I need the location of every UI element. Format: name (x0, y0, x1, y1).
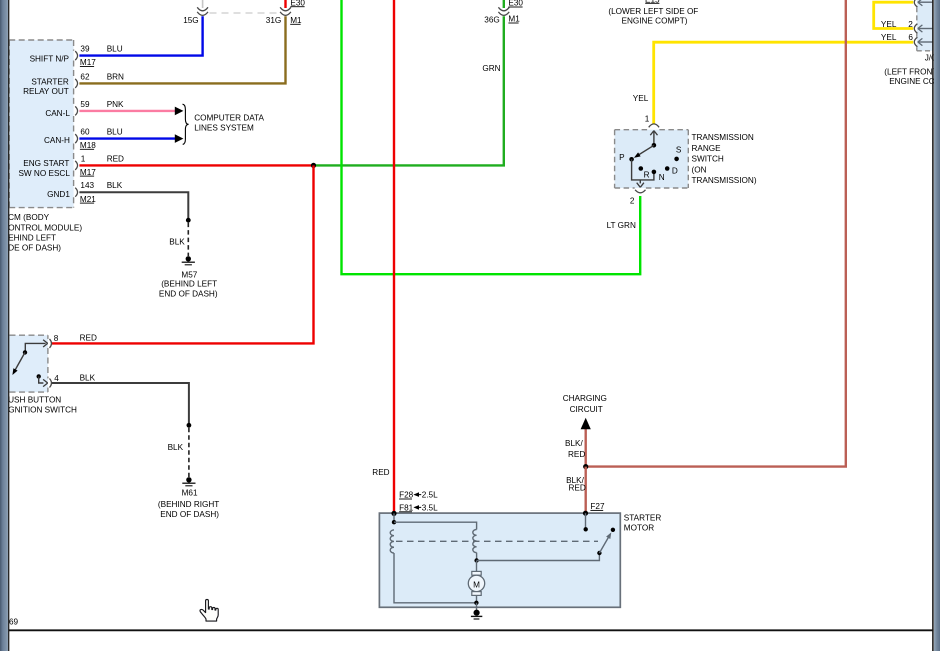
node: charging junction (583, 464, 588, 469)
svg-text:RANGE: RANGE (692, 144, 722, 153)
svg-text:BRN: BRN (107, 72, 124, 81)
node A junction dot (311, 163, 316, 168)
svg-text:PUSH BUTTON: PUSH BUTTON (3, 395, 62, 404)
wire RED feed above connector 31G (284, 0, 286, 8)
svg-text:END OF DASH): END OF DASH) (160, 510, 219, 519)
svg-text:39: 39 (80, 45, 90, 54)
node: coil/motor junction (474, 558, 478, 562)
svg-text:STARTER: STARTER (31, 77, 69, 86)
svg-text:M1: M1 (508, 15, 520, 24)
svg-text:RED: RED (568, 450, 585, 459)
svg-text:GRN: GRN (482, 64, 500, 73)
svg-text:MOTOR: MOTOR (624, 524, 654, 533)
starter internals: feed split (393, 513, 395, 521)
svg-text:6: 6 (908, 33, 913, 42)
svg-text:S: S (676, 146, 682, 155)
push button ignition switch box (0, 335, 48, 392)
node F81 junction (391, 511, 396, 516)
svg-text:F81: F81 (399, 503, 414, 512)
mechanical linkage dashed (396, 540, 598, 542)
svg-text:M57: M57 (181, 270, 197, 279)
svg-text:YEL: YEL (881, 20, 897, 29)
wire GRN from node A down/left (314, 16, 504, 165)
svg-text:CAN-H: CAN-H (44, 136, 70, 145)
svg-text:36G: 36G (484, 16, 499, 25)
svg-text:2: 2 (908, 20, 913, 29)
inline connector 36G E30/M1 (498, 7, 509, 11)
svg-text:M1: M1 (290, 16, 302, 25)
wire BLK/RED from top right to charging node (587, 0, 846, 467)
wire: silver feed above connector 15G (202, 0, 204, 8)
svg-text:15G: 15G (183, 16, 198, 25)
contact D (665, 166, 670, 171)
svg-text:F28: F28 (399, 491, 414, 500)
svg-text:M21: M21 (80, 195, 96, 204)
svg-text:M17: M17 (80, 58, 96, 67)
svg-text:F27: F27 (590, 502, 605, 511)
contact N (652, 170, 657, 175)
svg-text:SW NO ESCL: SW NO ESCL (18, 169, 70, 178)
svg-text:N: N (659, 173, 665, 182)
wire BRN from BCM pin 62 to 31G (79, 16, 285, 83)
inline connector 31G E30/M1 (280, 7, 291, 11)
svg-text:RED: RED (80, 333, 97, 342)
inline connector 15G/M1 (pair C1) (197, 7, 208, 11)
wire to solenoid contact (477, 555, 600, 561)
svg-text:STARTER: STARTER (624, 513, 662, 522)
push button pin 8 (50, 339, 52, 348)
svg-text:TRANSMISSION): TRANSMISSION) (692, 176, 757, 185)
svg-text:1: 1 (645, 115, 650, 124)
svg-text:GND1: GND1 (47, 190, 70, 199)
splice dot (GND1) (186, 218, 191, 223)
svg-text:(ON: (ON (692, 165, 707, 174)
push button pin 4 (50, 379, 52, 388)
svg-text:CONTROL MODULE): CONTROL MODULE) (2, 223, 82, 232)
dashed BLK to ground M61 (188, 428, 190, 477)
wire BLK/RED charging circuit arrow (585, 429, 587, 467)
svg-text:143: 143 (80, 181, 94, 190)
node F27 junction (583, 511, 588, 516)
svg-text:YEL: YEL (881, 33, 897, 42)
svg-text:8: 8 (54, 334, 59, 343)
svg-text:M61: M61 (182, 489, 198, 498)
svg-text:3.5L: 3.5L (422, 503, 438, 512)
svg-text:R: R (644, 171, 650, 180)
svg-text:RED: RED (372, 468, 389, 477)
svg-text:62: 62 (80, 72, 90, 81)
BCM pin 62 STARTER RELAY OUT (75, 79, 77, 88)
solenoid coil left (pull-in winding) (390, 530, 394, 553)
svg-text:YEL: YEL (633, 94, 649, 103)
wire BLK GND1 to M57 (79, 192, 188, 219)
svg-text:(LOWER LEFT SIDE OF: (LOWER LEFT SIDE OF (608, 7, 698, 16)
BCM box (body control module) (9, 40, 73, 208)
svg-text:PNK: PNK (107, 100, 124, 109)
svg-text:CAN-L: CAN-L (45, 109, 70, 118)
svg-text:RELAY OUT: RELAY OUT (23, 87, 69, 96)
svg-text:P: P (619, 153, 625, 162)
svg-text:(LEFT FRONT OF: (LEFT FRONT OF (884, 68, 940, 77)
junction block J/C box (917, 0, 933, 51)
dashed connector group line 15G-31G (210, 12, 280, 14)
contact P (629, 157, 634, 162)
J/C top pin (914, 0, 917, 7)
svg-text:60: 60 (80, 127, 90, 136)
svg-text:RED: RED (107, 154, 124, 163)
svg-text:M18: M18 (80, 141, 96, 150)
contact S (674, 157, 679, 162)
svg-text:2.5L: 2.5L (422, 491, 438, 500)
cursor (hand pointer) (200, 600, 218, 622)
svg-text:TRANSMISSION: TRANSMISSION (692, 133, 754, 142)
svg-text:CHARGING: CHARGING (563, 394, 607, 403)
dashed BLK to ground M57 (187, 223, 189, 256)
svg-text:BLU: BLU (107, 127, 123, 136)
svg-text:END OF DASH): END OF DASH) (159, 289, 218, 298)
wire RED vertical to starter F81 (393, 0, 395, 513)
svg-text:SHIFT N/P: SHIFT N/P (30, 54, 70, 63)
wire GRN feed above connector 36G (503, 0, 505, 8)
BCM pin 143 GND1 (75, 188, 77, 197)
starter motor box (379, 513, 620, 607)
ground M57 (186, 256, 191, 261)
ground M61 (186, 477, 191, 482)
svg-text:69: 69 (9, 618, 19, 627)
brace computer data lines (183, 104, 189, 144)
solenoid switch arm (599, 535, 610, 553)
wire BLK/RED down to starter F27 (585, 467, 587, 514)
svg-text:BCM (BODY: BCM (BODY (3, 213, 50, 222)
svg-text:CIRCUIT: CIRCUIT (570, 405, 603, 414)
svg-text:BLK/: BLK/ (565, 439, 583, 448)
svg-text:ENGINE COMPT): ENGINE COMPT) (622, 17, 688, 26)
contact R (639, 166, 644, 171)
ground (starter) (474, 610, 480, 616)
wire BLK pin 4 to M61 (52, 383, 189, 424)
svg-text:RED: RED (569, 484, 586, 493)
trans switch arm to P (637, 145, 654, 156)
J/C pin 2 (914, 24, 917, 34)
solenoid fixed contact right (611, 528, 615, 532)
wire left coil to bottom bus (394, 553, 475, 603)
svg-text:BLK: BLK (107, 181, 123, 190)
svg-text:E30: E30 (508, 0, 523, 8)
svg-text:IGNITION SWITCH: IGNITION SWITCH (6, 406, 77, 415)
wire RED eng start: BCM pin1 to node A (79, 164, 313, 166)
transmission range switch box (615, 130, 689, 188)
svg-text:59: 59 (80, 100, 90, 109)
svg-text:(BEHIND LEFT: (BEHIND LEFT (161, 280, 217, 289)
svg-text:ENG START: ENG START (23, 159, 69, 168)
wire PNK CAN-L with arrow (79, 110, 175, 112)
svg-text:31G: 31G (266, 16, 281, 25)
trans switch pin 2 exit arrow (639, 180, 641, 184)
wire BLU from BCM pin 39 up to 15G (79, 16, 202, 55)
contact wire P-N (632, 159, 654, 180)
svg-text:BLK: BLK (80, 373, 96, 382)
wire motor to ground (476, 603, 478, 610)
BCM pin 60 CAN-H (75, 134, 77, 143)
svg-text:M17: M17 (80, 168, 96, 177)
svg-text:4: 4 (54, 374, 59, 383)
svg-text:LINES SYSTEM: LINES SYSTEM (194, 124, 254, 133)
svg-text:2: 2 (630, 196, 635, 205)
svg-text:(BEHIND RIGHT: (BEHIND RIGHT (158, 500, 219, 509)
svg-text:SWITCH: SWITCH (692, 155, 724, 164)
wire BLU CAN-H with arrow (79, 137, 175, 139)
svg-text:BLK: BLK (169, 238, 185, 247)
BCM pin 39 SHIFT N/P (75, 51, 77, 60)
wire RED node A down to push button pin 8 (52, 165, 314, 343)
wire YEL from trans switch pin 1 to J/C pin 6 (654, 42, 914, 123)
BCM pin 59 CAN-L (75, 106, 77, 115)
svg-text:SIDE OF DASH): SIDE OF DASH) (1, 244, 62, 253)
wire YEL from J/C top pin to J/C pin 2 (874, 2, 914, 28)
solenoid switch pivot (597, 551, 601, 555)
svg-text:M: M (473, 581, 480, 590)
J/C pin 6 (914, 37, 917, 47)
solenoid fixed contact left (from F27) (585, 513, 587, 527)
motor M (472, 571, 481, 575)
svg-text:LT GRN: LT GRN (607, 221, 636, 230)
push button switch internals (25, 343, 45, 350)
svg-text:COMPUTER DATA: COMPUTER DATA (194, 114, 264, 123)
svg-text:D: D (672, 167, 678, 176)
splice dot (pin4) (187, 423, 192, 428)
solenoid coil right (hold-in winding) (473, 530, 477, 553)
svg-text:BLK: BLK (168, 443, 184, 452)
wire LT GRN from trans switch pin 2 loop to top (342, 0, 641, 274)
trans switch pivot dot (652, 143, 657, 148)
BCM pin 1 ENG START SW NO ESCL (75, 161, 77, 170)
svg-text:BLU: BLU (107, 45, 123, 54)
svg-text:1: 1 (81, 154, 86, 163)
